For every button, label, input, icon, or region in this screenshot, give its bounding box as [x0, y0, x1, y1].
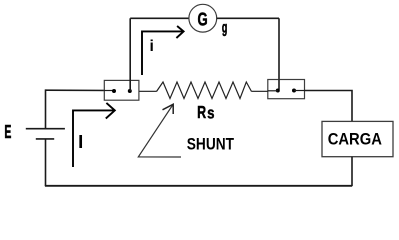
- wire: left resistor lead: [139, 90, 156, 92]
- current arrow i: [142, 31, 183, 75]
- resistor Rs zigzag: [157, 82, 252, 99]
- wire: right resistor lead: [252, 90, 268, 92]
- svg-text:g: g: [222, 19, 227, 36]
- wire: CARGA bottom to bottom wire: [351, 157, 353, 186]
- shunt pointer arrow: [138, 105, 181, 158]
- wire: vertical from left box right dot up to galvanometer branch: [129, 18, 131, 91]
- load CARGA (box): [322, 121, 393, 156]
- wire: stub into left junction box to left dot: [104, 90, 114, 92]
- wire: stub from resistor into right box left dot: [268, 90, 278, 92]
- junction dot (left box, left): [112, 89, 116, 93]
- wire: galvanometer right terminal to right branch: [217, 17, 279, 19]
- svg-text:E: E: [4, 121, 11, 142]
- wire: right vertical down to right junction box: [278, 18, 280, 91]
- wire: stub from right dot to box right edge: [294, 90, 305, 92]
- svg-text:CARGA: CARGA: [328, 131, 382, 149]
- current arrow I: [73, 110, 115, 167]
- junction dot (right box, left): [276, 89, 280, 93]
- wire: stub from box top down to left dot: [278, 80, 280, 90]
- wire: left vertical from battery bottom plate to bottom wire: [45, 139, 47, 186]
- terminal block TB1 (left junction box): [104, 80, 139, 100]
- wire: left vertical from top wire down to battery top plate: [45, 89, 47, 128]
- terminal block TB2 (right junction box): [268, 80, 305, 99]
- wire: horizontal to galvanometer left terminal: [130, 17, 189, 19]
- svg-text:i: i: [150, 38, 154, 55]
- svg-text:s: s: [207, 104, 214, 122]
- junction dot (left box, right): [128, 89, 132, 93]
- junction dot (right box, right): [292, 89, 296, 93]
- battery E (short plate): [36, 138, 54, 140]
- svg-text:I: I: [78, 131, 83, 152]
- wire: top-left horizontal from battery branch to left junction box: [46, 89, 115, 91]
- galvanometer G (meter circle): [189, 4, 217, 32]
- svg-text:R: R: [197, 102, 206, 122]
- svg-text:SHUNT: SHUNT: [187, 134, 234, 153]
- wire: right box to load branch: [305, 91, 353, 122]
- wire: bottom horizontal: [45, 185, 352, 187]
- svg-text:G: G: [198, 8, 208, 29]
- battery E (long plate): [26, 128, 65, 130]
